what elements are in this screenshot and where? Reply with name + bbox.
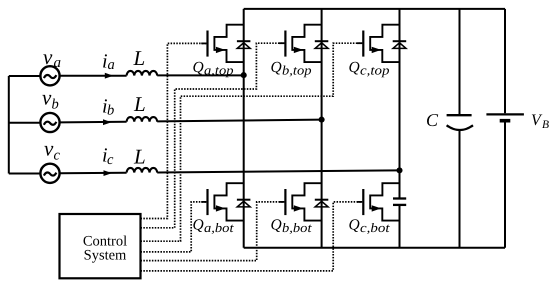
- wire phase B: [9, 120, 322, 123]
- label Q_a,top: [193, 59, 235, 78]
- diode D_a,top: [237, 41, 251, 48]
- inductor L phase A: [127, 71, 158, 76]
- svg-text:b: b: [107, 103, 114, 119]
- label Q_c,bot: [349, 216, 390, 235]
- svg-text:B: B: [542, 119, 549, 131]
- source v_b: [40, 113, 59, 132]
- gate wire to Q_a,top: [141, 43, 207, 218]
- svg-text:Q: Q: [349, 216, 360, 233]
- wire leg A: [243, 9, 245, 248]
- label i_b: [102, 95, 114, 118]
- svg-text:L: L: [133, 145, 146, 169]
- battery V_B: [486, 9, 524, 248]
- label v_c: [44, 137, 61, 164]
- svg-text:Q: Q: [271, 216, 282, 233]
- svg-text:Q: Q: [193, 59, 204, 76]
- svg-text:c: c: [54, 148, 61, 164]
- svg-text:c,bot: c,bot: [360, 220, 390, 235]
- source v_a: [40, 66, 59, 85]
- capacitor C: [447, 115, 473, 130]
- svg-text:Q: Q: [349, 59, 360, 76]
- inductor L phase B: [127, 117, 158, 122]
- capacitor C branch wires: [459, 9, 461, 248]
- inductor L phase C: [127, 168, 158, 173]
- gate wire to Q_c,top: [141, 43, 363, 241]
- svg-text:Q: Q: [193, 216, 204, 233]
- svg-text:L: L: [133, 46, 146, 70]
- svg-text:v: v: [43, 45, 53, 69]
- gate wire to Q_a,bot: [141, 202, 207, 252]
- svg-text:a: a: [54, 55, 62, 71]
- label i_c: [102, 144, 114, 168]
- wire top DC bus: [244, 8, 505, 10]
- transistor Q_c,top: [363, 25, 399, 62]
- current arrow i_a: [105, 73, 114, 79]
- svg-text:System: System: [84, 248, 127, 264]
- label Q_b,top: [271, 59, 313, 78]
- wire leg B: [321, 9, 323, 248]
- svg-text:b,bot: b,bot: [282, 220, 312, 235]
- transistor Q_a,top: [208, 25, 244, 62]
- current arrow i_c: [104, 170, 113, 176]
- svg-text:a,top: a,top: [204, 63, 234, 78]
- gate wire to Q_b,top: [141, 43, 285, 228]
- label Q_a,bot: [193, 216, 234, 235]
- control system box: [60, 214, 141, 278]
- node phase B junction: [319, 117, 325, 123]
- label Q_c,top: [349, 59, 391, 78]
- diode D_b,top: [315, 41, 329, 48]
- wire leg C: [399, 9, 401, 248]
- label v_b: [42, 86, 59, 113]
- svg-text:b: b: [52, 97, 59, 113]
- svg-text:a,bot: a,bot: [204, 220, 234, 235]
- label Q_b,bot: [271, 216, 312, 235]
- transistor Q_c,bot: [363, 183, 399, 220]
- diode D_a,bot: [237, 200, 251, 207]
- label v_a: [43, 45, 61, 71]
- wire bottom DC bus: [244, 247, 505, 249]
- source v_c: [40, 164, 59, 183]
- svg-text:c: c: [107, 152, 114, 168]
- label V_B: [531, 112, 549, 131]
- label i_a: [102, 50, 115, 73]
- svg-text:C: C: [426, 110, 439, 130]
- gate wire to Q_b,bot: [141, 202, 285, 261]
- diode D_b,bot: [315, 200, 329, 207]
- capacitor of Q_c,bot branch: [393, 199, 406, 205]
- svg-text:v: v: [42, 86, 52, 110]
- svg-text:Q: Q: [271, 59, 282, 76]
- diode D_c,top: [393, 41, 407, 48]
- svg-text:L: L: [133, 92, 146, 116]
- svg-text:a: a: [108, 57, 115, 73]
- transistor Q_a,bot: [208, 183, 244, 220]
- wire left bus: [8, 76, 10, 174]
- gate lead dashes at gate bars: [201, 43, 362, 202]
- transistor Q_b,top: [285, 25, 321, 62]
- gate wire to Q_c,bot: [141, 202, 363, 271]
- label Control System: [83, 234, 127, 264]
- svg-text:c,top: c,top: [360, 63, 390, 78]
- transistor Q_b,bot: [285, 183, 321, 220]
- svg-text:b,top: b,top: [282, 63, 312, 78]
- node phase C junction: [396, 167, 402, 173]
- node phase A junction: [241, 72, 247, 78]
- svg-text:v: v: [44, 137, 54, 161]
- wire phase A: [9, 74, 244, 77]
- wire phase C: [9, 170, 400, 173]
- current arrow i_b: [103, 119, 112, 125]
